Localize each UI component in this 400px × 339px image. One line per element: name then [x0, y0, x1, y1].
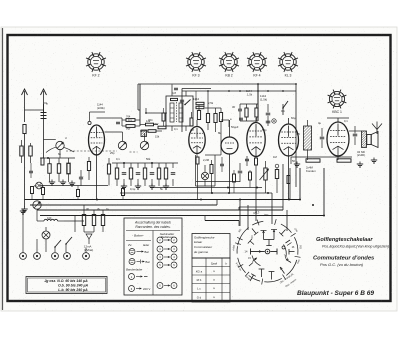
- resistor R12: [130, 163, 132, 168]
- antenna coil L1 dashes: [41, 112, 47, 114]
- wire gang1 bottom drop: [58, 158, 60, 164]
- junction 14: [312, 204, 314, 206]
- pilot lamp B1: [42, 231, 50, 239]
- wire lower rail 2: [40, 185, 108, 187]
- wire comp rail upper: [196, 181, 240, 183]
- resistor R5: [337, 159, 351, 162]
- wire left shield vertical: [181, 89, 183, 133]
- wire switch feed 5: [286, 210, 288, 231]
- junction 8: [267, 192, 269, 194]
- wire inner rail 2: [182, 88, 211, 90]
- tube U3 (oscillator KB2): [221, 137, 238, 154]
- terminal J5: [83, 253, 90, 260]
- variable capacitor C1 (tuning gang 1): [56, 141, 64, 149]
- wire bus B2b: [239, 206, 283, 208]
- tube U2 (mixer KF3): [189, 127, 205, 154]
- oscillator current table box: [26, 277, 107, 294]
- resistor R31: [82, 215, 85, 226]
- tube socket X2 (KF3): [186, 52, 206, 77]
- resistor R4 (screen): [306, 159, 320, 162]
- ground mid: [151, 184, 153, 187]
- resistor R20b: [67, 163, 70, 174]
- resistor R14: [144, 163, 146, 168]
- legend right rows: [157, 237, 163, 243]
- capacitor C7: [353, 133, 358, 135]
- switch S1 top contact pair: [263, 231, 265, 240]
- wire switch feed 4: [271, 193, 273, 224]
- resistor R21: [57, 164, 60, 174]
- resistor R3b: [219, 113, 222, 122]
- wire right drop 1: [299, 168, 301, 200]
- switch S2 (wave switch section): [282, 104, 284, 115]
- ground mid-left c: [71, 181, 73, 184]
- resistor R2: [206, 114, 209, 123]
- resistor R37 on U5 lead: [287, 176, 290, 184]
- wire speaker top: [349, 130, 362, 132]
- wire switch feed 1: [239, 200, 241, 227]
- ground right 3: [373, 158, 375, 161]
- switch S1 left contacts: [250, 241, 254, 245]
- tube socket X6 (KBC1): [328, 90, 347, 114]
- variable capacitor C3 (tuning gang 3): [140, 141, 148, 149]
- junction 5: [288, 199, 290, 201]
- tube socket X4 (KF4): [247, 52, 267, 77]
- wave range table box: [192, 234, 230, 259]
- wire bus B1: [25, 199, 301, 201]
- resistor R24: [275, 170, 278, 179]
- ground right 2: [359, 162, 361, 165]
- switch S3: [55, 240, 61, 247]
- capacitor C42 on shield lead: [180, 99, 184, 101]
- wire osc coupling: [205, 154, 221, 156]
- junction 13: [299, 199, 301, 201]
- ground mid: [137, 184, 139, 187]
- resistor R8 above mixer: [197, 111, 200, 120]
- junction 3: [228, 192, 230, 194]
- junction 4: [256, 187, 258, 189]
- junction 12: [47, 157, 49, 159]
- lamp indicator small: [36, 182, 43, 189]
- variable capacitor C2 (tuning gang 2): [118, 141, 126, 149]
- ground mid: [165, 184, 167, 187]
- wire R1 to ground rail: [24, 134, 26, 208]
- resistor R47 ladder a: [196, 102, 204, 104]
- resistor R19: [20, 146, 23, 156]
- T1 top leads: [171, 85, 173, 97]
- capacitor C18: [172, 163, 174, 168]
- legend row L2: [129, 259, 135, 265]
- junction 15: [323, 215, 325, 217]
- wire bus B5: [120, 192, 272, 194]
- oscillator coil box T1: [166, 96, 193, 126]
- resistor R20: [48, 164, 51, 174]
- capacitor C23: [29, 170, 33, 172]
- dial lamp B2: [201, 172, 208, 179]
- cable legend box: [124, 218, 182, 295]
- switch S1 lower-left contacts: [253, 258, 257, 262]
- resistor R34: [122, 189, 125, 196]
- wire T1 secondary rail: [146, 112, 167, 114]
- capacitor C5 (padder): [238, 108, 242, 110]
- switch S1 rotor and hub: [265, 249, 270, 254]
- wire gang link dashed: [66, 150, 117, 152]
- wire right drop 2: [323, 168, 325, 216]
- inductor L2 choke: [44, 219, 58, 221]
- resistor R1: [23, 125, 26, 134]
- capacitor C22: [79, 176, 83, 178]
- screen junction mark: [272, 119, 276, 123]
- tube U4 (IF amp KF4): [247, 123, 265, 157]
- resistor R19c: [41, 158, 44, 165]
- tube U6 (output KBC1): [327, 122, 349, 156]
- resistor R19b: [29, 146, 32, 156]
- junction 10: [123, 162, 125, 164]
- rotary switch S1 outer ring: [235, 219, 300, 284]
- wire tuning stem: [139, 84, 141, 126]
- antenna A1: [24, 91, 26, 110]
- wave range table grid: [192, 258, 230, 302]
- cable legend divider: [152, 231, 154, 296]
- potentiometer R30: [33, 201, 41, 209]
- capacitor C9b: [266, 120, 271, 122]
- ground at antenna lead: [24, 207, 26, 210]
- wire shield left drop: [137, 84, 139, 110]
- wire mid-left rail: [40, 157, 75, 159]
- T1 coil b: [179, 103, 183, 122]
- resistor R3: [214, 114, 217, 123]
- ground mid-left a: [51, 180, 53, 183]
- AVC sub-box left wall: [195, 155, 197, 186]
- capacitor C11: [123, 163, 125, 168]
- wire bus B7: [205, 220, 239, 222]
- resistor R49 left of T1: [162, 113, 165, 121]
- grid cap U1: [88, 121, 91, 124]
- tube socket X5 (KL3): [278, 52, 298, 77]
- scan speckle texture: [0, 0, 1, 1]
- wire osc feed vertical: [257, 84, 259, 121]
- capacitor C24: [220, 163, 224, 165]
- resistor R41 (757): [126, 125, 135, 128]
- capacitor C45: [245, 158, 249, 160]
- resistor R40 (764): [126, 119, 135, 122]
- wire L1 to tuning: [43, 104, 45, 158]
- legend row L3: [129, 274, 135, 280]
- resistor R44: [158, 126, 166, 129]
- capacitor C13: [137, 163, 139, 168]
- frame aerial symbol: [376, 130, 378, 135]
- T1 bottom leads: [171, 126, 173, 131]
- wire shield top: [138, 83, 296, 85]
- T1 core dashed: [176, 102, 178, 122]
- wire antenna down-lead: [24, 110, 26, 122]
- T1 inner pill: [171, 98, 178, 100]
- junction 6: [239, 199, 241, 201]
- terminal J1: [20, 253, 27, 260]
- resistor R48 ladder b: [196, 106, 204, 108]
- schematic border frame: [8, 35, 391, 301]
- wire gang3 top: [144, 133, 146, 141]
- resistor R43: [148, 130, 156, 133]
- coupling coil L3: [141, 130, 147, 137]
- legend row L4: [129, 286, 135, 292]
- resistor R45 below U4: [255, 157, 257, 159]
- ground mid-left b: [62, 180, 64, 183]
- resistor R35: [233, 174, 236, 182]
- junction 11: [151, 162, 153, 164]
- resistor R7: [255, 108, 258, 117]
- wire grid rail: [105, 131, 123, 133]
- junction 9: [227, 187, 229, 189]
- tube socket X1 (KF2) top view: [86, 52, 106, 77]
- ground mid: [123, 184, 125, 187]
- contact point: [275, 164, 279, 168]
- junction 2: [200, 199, 202, 201]
- resistor R27: [31, 187, 34, 194]
- wire bus B6: [150, 187, 262, 189]
- resistor R25: [87, 162, 90, 171]
- potentiometer R23 (volume): [264, 168, 267, 180]
- T1 switch lever: [185, 100, 191, 105]
- wire shield right drop: [295, 84, 297, 187]
- resistor R26: [107, 164, 110, 174]
- wire right drop 4: [282, 164, 284, 210]
- paper left edge shadow: [2, 28, 4, 310]
- wire U1 plate to T1: [97, 117, 123, 119]
- wire bus B4: [40, 215, 324, 217]
- terminal J3: [52, 253, 59, 260]
- switch S1 right cluster: [284, 245, 287, 259]
- capacitor C41: [116, 121, 120, 123]
- switch S1 upper-right contact: [281, 230, 286, 235]
- wire right drop 3: [289, 168, 291, 200]
- switch S1 bottom stem: [250, 275, 254, 281]
- wire switch feed 3: [255, 188, 257, 222]
- switch S1 upper-left contact: [252, 229, 256, 234]
- ground left rail: [22, 209, 24, 212]
- rectifier D1: [86, 234, 92, 239]
- resistor R9: [190, 118, 193, 126]
- wire osc top: [228, 120, 230, 127]
- resistor R17: [165, 163, 167, 168]
- wire battery rail: [64, 220, 84, 222]
- wire bus B3: [37, 209, 283, 211]
- resistor R42: [146, 123, 154, 126]
- output transformer T4: [362, 131, 367, 148]
- transformer T3 primary choke: [304, 126, 312, 150]
- resistor R36: [249, 172, 252, 180]
- resistor R16: [158, 163, 160, 168]
- loudspeaker LS1: [367, 135, 371, 145]
- resistor R10: [116, 163, 118, 168]
- capacitor C9 on screen line: [267, 104, 269, 112]
- terminal J4: [64, 253, 71, 260]
- capacitor C21: [238, 170, 243, 172]
- wire mid top rail: [112, 162, 178, 164]
- switch S4: [66, 237, 72, 244]
- wire right comp rail: [290, 157, 292, 164]
- tube U1 (RF amp KF2): [89, 125, 105, 155]
- switch S1 lower-left arc: [252, 256, 261, 266]
- wire bus B2: [30, 204, 217, 206]
- T1 cap top: [174, 87, 178, 89]
- junction 7: [211, 192, 213, 194]
- resistor R29: [77, 190, 80, 197]
- capacitor C6: [320, 136, 325, 138]
- resistor R22: [210, 165, 213, 174]
- wire inner top rail: [182, 90, 296, 92]
- capacitor C15: [151, 163, 153, 168]
- antenna A2: [43, 91, 45, 112]
- AVC sub-box bottom: [196, 185, 216, 187]
- resistor R46 below U2: [196, 154, 198, 157]
- ground right 1: [296, 162, 298, 165]
- tube U5 (detector KL3): [279, 124, 299, 156]
- tube socket X3 (KB2): [219, 52, 239, 77]
- AVC sub-box right wall: [214, 155, 216, 186]
- wire gang1 down: [59, 150, 61, 158]
- wire antenna join: [25, 109, 44, 111]
- resistor R33: [101, 215, 104, 226]
- wire switch feed 2: [247, 205, 249, 230]
- resistor R28: [42, 188, 45, 195]
- junction 1: [96, 199, 98, 201]
- terminal J2: [34, 253, 41, 260]
- resistor R6: [245, 108, 248, 117]
- resistor R32: [92, 215, 95, 226]
- junction dots top rails: [207, 90, 209, 92]
- T1 coil a: [170, 103, 174, 122]
- switch S1 bottom T contacts: [261, 269, 263, 277]
- capacitor C8: [239, 117, 243, 119]
